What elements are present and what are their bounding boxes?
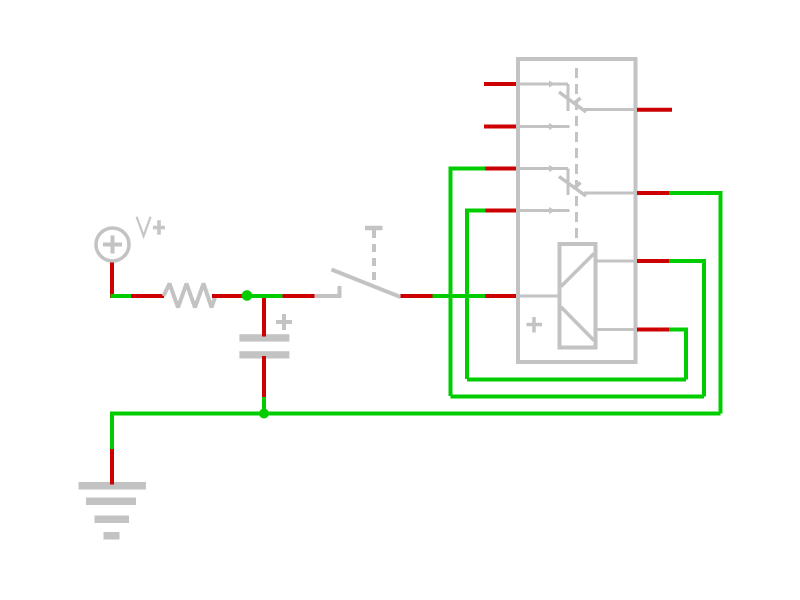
IC U1 pin1 arrow bbox=[549, 81, 556, 88]
resistor R1 left stub bbox=[131, 294, 164, 298]
IC U1 right pin stub (amp out upper) bbox=[637, 259, 669, 263]
switch SW1 left stub bbox=[283, 294, 315, 298]
IC U1 body bbox=[518, 59, 636, 362]
IC U1 internal switch 2 output line bbox=[584, 192, 636, 195]
IC U1 internal dashed control line bbox=[575, 68, 578, 243]
wire amp out upper loop bbox=[669, 261, 704, 397]
wire V+ to node (red stub down) bbox=[110, 263, 114, 299]
wire amp out lower loop bbox=[669, 330, 686, 380]
IC U1 amp plus sign bbox=[527, 317, 543, 333]
IC U1 internal switch 2 blade bbox=[559, 177, 586, 197]
wire node A green bbox=[249, 294, 283, 298]
node junction dot B bbox=[259, 409, 269, 419]
IC U1 pin1 internal line with contact bbox=[518, 84, 568, 111]
IC U1 pin 1 stub bbox=[484, 82, 516, 86]
IC U1 pin3 internal line with contact bbox=[518, 169, 568, 196]
switch SW1 actuator dashed link bbox=[372, 230, 376, 284]
IC U1 right pin stub (amp out lower) bbox=[637, 328, 669, 332]
resistor R1 right stub bbox=[212, 294, 245, 298]
ground GND bar 3 bbox=[95, 516, 130, 524]
ground GND bar 1 bbox=[79, 482, 147, 490]
node junction dot A bbox=[242, 290, 253, 301]
power source V1 (V+) bbox=[96, 228, 129, 261]
capacitor C1 bottom plate bbox=[239, 351, 289, 358]
IC U1 pin4 internal line bbox=[518, 209, 570, 212]
IC U1 amp diagonal lower bbox=[561, 307, 594, 341]
wire corner green at V+ bbox=[111, 294, 132, 298]
IC U1 internal switch 1 output line bbox=[584, 108, 636, 111]
IC U1 pin 3 stub bbox=[486, 167, 517, 171]
wire switch to IC input green bbox=[433, 294, 486, 298]
IC U1 pin2 arrow bbox=[549, 123, 556, 130]
wire feedback vertical v1 to pin3 bbox=[451, 169, 486, 397]
resistor R1 bbox=[164, 284, 216, 308]
IC U1 internal input line to amp bbox=[518, 295, 560, 298]
label V+ bbox=[137, 217, 151, 236]
wire cap to bus green bbox=[262, 397, 266, 412]
wire switch2 out to ground bus bbox=[669, 193, 721, 414]
capacitor C1 plus sign bbox=[276, 314, 292, 330]
wire feedback B horizontal bbox=[451, 395, 705, 399]
switch SW1 blade bbox=[332, 270, 401, 298]
switch SW1 right stub bbox=[401, 294, 433, 298]
capacitor C1 top plate bbox=[239, 334, 289, 341]
switch SW1 fixed contact bbox=[315, 286, 340, 298]
IC U1 input stub red bbox=[486, 294, 517, 298]
IC U1 internal switch 1 blade bbox=[559, 92, 586, 112]
ground bus wire bbox=[112, 412, 721, 416]
IC U1 right pin stub (switch2 out) bbox=[637, 191, 669, 195]
ground GND bar 2 bbox=[86, 498, 136, 506]
IC U1 pin2 internal line bbox=[518, 125, 570, 128]
switch SW1 actuator T-bar bbox=[365, 226, 383, 231]
IC U1 amp output line lower bbox=[596, 328, 636, 331]
wire feedback vertical v2 to pin4 bbox=[467, 211, 486, 380]
wire bus down to ground green bbox=[110, 412, 114, 450]
IC U1 pin4 arrow bbox=[549, 207, 556, 214]
IC U1 internal amp/speaker body bbox=[560, 244, 596, 348]
ground GND bar 4 bbox=[104, 532, 120, 540]
capacitor C1 top lead red bbox=[262, 298, 266, 337]
wire feedback A horizontal bbox=[467, 378, 686, 382]
IC U1 amp output line upper bbox=[596, 260, 636, 263]
IC U1 pin 4 stub bbox=[486, 209, 517, 213]
IC U1 amp diagonal upper bbox=[561, 254, 594, 287]
ground GND stub red bbox=[110, 449, 114, 485]
capacitor C1 bottom lead red bbox=[262, 356, 266, 397]
IC U1 pin 2 stub bbox=[484, 125, 516, 129]
IC U1 right pin stub (switch1 out, unconnected) bbox=[637, 108, 672, 112]
IC U1 pin3 arrow bbox=[549, 165, 556, 172]
